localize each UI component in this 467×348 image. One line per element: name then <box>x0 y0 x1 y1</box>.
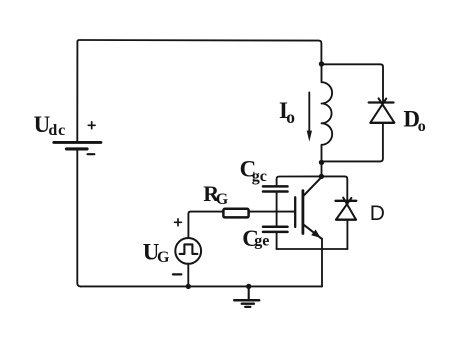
arrow Io current <box>308 92 310 134</box>
wire left rail upper <box>76 42 78 141</box>
wire left rail lower <box>77 150 80 286</box>
battery plus sign <box>88 122 95 129</box>
battery minus sign <box>88 153 95 155</box>
wire Do branch bottom <box>322 123 383 161</box>
node collector junction <box>319 174 324 179</box>
svg-text:o: o <box>418 118 426 135</box>
transistor IGBT gate bar <box>294 197 296 227</box>
wire U_G bottom lead <box>187 264 189 287</box>
capacitor C_gc plates <box>263 185 288 188</box>
svg-text:ge: ge <box>254 233 269 250</box>
battery U_dc short plate <box>66 147 87 150</box>
transistor IGBT body bar <box>301 191 304 234</box>
diode Do cathode bar <box>369 101 394 103</box>
wire C_gc top to collector node <box>277 176 322 186</box>
node ground junction <box>246 284 251 289</box>
wire C_ge bottom to emitter rail <box>276 232 278 249</box>
wire diode D bottom <box>346 221 348 250</box>
U_G minus sign <box>173 273 181 275</box>
svg-text:G: G <box>216 191 229 208</box>
capacitor C_ge plates <box>263 226 288 229</box>
wire top rail <box>77 40 321 64</box>
wire Do branch top <box>322 64 384 102</box>
resistor R_G body <box>223 209 248 218</box>
svg-text:G: G <box>157 249 170 266</box>
node U_G bottom junction <box>186 284 191 289</box>
node inductor bottom junction <box>319 160 324 165</box>
wire bottom rail <box>81 285 322 287</box>
wire emitter vertical <box>321 239 323 287</box>
inductor Lo coil <box>322 64 333 162</box>
wire collector to diode D <box>321 176 347 200</box>
U_G plus sign <box>175 219 182 226</box>
transistor IGBT emitter arrowhead <box>311 230 321 238</box>
battery U_dc long plate <box>54 141 101 144</box>
transistor IGBT emitter diagonal <box>303 224 321 238</box>
wire gate node vertical (C_gc bottom to C_ge top) <box>276 192 278 227</box>
transistor IGBT collector diagonal <box>303 177 321 196</box>
svg-text:D: D <box>370 202 385 225</box>
diode D cathode bar <box>336 200 357 202</box>
U_G pulse symbol <box>180 244 198 254</box>
svg-text:dc: dc <box>48 122 66 139</box>
wire R_G to gate <box>249 211 295 213</box>
wire collector dot to inductor bottom dot <box>321 162 323 176</box>
diode D triangle <box>336 198 356 220</box>
ground <box>234 286 259 307</box>
wire emitter rail <box>277 248 348 250</box>
svg-text:gc: gc <box>252 168 267 185</box>
diode Do triangle <box>371 98 395 122</box>
svg-text:o: o <box>286 107 295 127</box>
node inductor top junction <box>319 61 324 66</box>
wire U_G top lead and corner to R_G <box>188 212 223 239</box>
source U_G circle <box>175 238 201 264</box>
